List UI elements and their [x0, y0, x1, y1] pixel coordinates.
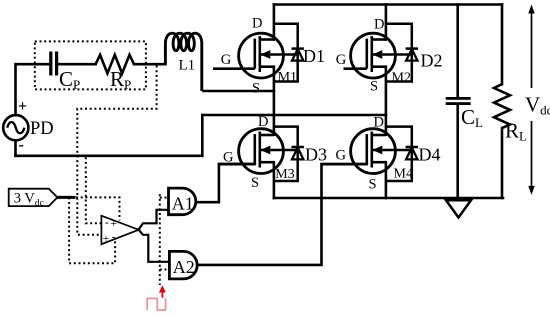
wire: bottom bus (ground rail)	[274, 197, 503, 200]
wire: top bus (Vdc+)	[274, 3, 502, 6]
resistor Rp	[96, 55, 134, 74]
wire: Rp to L1	[134, 63, 165, 66]
diode D2 (body diode)	[386, 24, 418, 82]
dotted wire: pulse line to A1 and A2 inputs	[159, 194, 161, 285]
pulse source arrow (red)	[159, 285, 166, 297]
svg-text:D3: D3	[305, 145, 327, 165]
dotted box around Cp and Rp	[35, 41, 146, 89]
svg-text:G: G	[223, 150, 234, 166]
svg-text:L1: L1	[179, 58, 196, 74]
wire: M1 source down to mid bus	[273, 67, 276, 115]
wire: op-amp output to A1 input	[139, 210, 169, 230]
wire: Cp to Rp	[58, 63, 95, 66]
wire: M2 source down to mid bus	[385, 67, 388, 115]
svg-text:D2: D2	[421, 51, 443, 71]
wire: M4 source to bottom bus	[385, 162, 388, 198]
wire: return line to PD negative	[16, 155, 203, 158]
wire: PD positive up to tank	[16, 64, 50, 115]
wire: mid bus (bridge node A)	[202, 114, 386, 117]
svg-text:D1: D1	[303, 46, 325, 66]
resistor RL	[494, 84, 510, 128]
ground	[446, 200, 471, 217]
wire: 3Vdc tag feed	[57, 196, 74, 199]
svg-text:PD: PD	[30, 119, 54, 139]
svg-text:G: G	[221, 52, 232, 68]
svg-text:D: D	[252, 16, 262, 32]
node tag 3 Vdc	[9, 189, 58, 206]
pulse waveform (red)	[147, 298, 165, 310]
Vdc measurement arrow up	[528, 5, 534, 89]
svg-text:M2: M2	[392, 71, 411, 86]
wire: M3 source to bottom bus	[273, 162, 276, 198]
inductor L1	[165, 33, 201, 91]
wire: CL branch lower	[456, 105, 459, 198]
wire: mid bus left drop to return line	[201, 115, 204, 156]
transistor M2	[344, 33, 412, 78]
capacitor Cp	[49, 52, 58, 76]
wire: A2 output to M4 gate	[195, 164, 367, 265]
AND gate A2	[169, 251, 197, 279]
wire: RL branch upper	[501, 5, 504, 85]
transistor M4	[322, 129, 412, 174]
Vdc measurement arrow down	[528, 121, 534, 195]
svg-text:M4: M4	[394, 167, 413, 182]
svg-text:D: D	[374, 17, 384, 33]
svg-text:A1: A1	[172, 193, 194, 213]
wire: M3 drain from mid bus	[273, 115, 276, 135]
wire: A1 output to M3 gate	[197, 164, 255, 202]
diode D1 (body diode)	[274, 24, 304, 82]
dotted wire: tank tap to op-amp + input	[77, 66, 156, 235]
svg-text:+: +	[110, 216, 117, 230]
svg-text:S: S	[369, 177, 377, 193]
diode D3 (body diode)	[274, 127, 304, 181]
svg-text:S: S	[370, 79, 378, 95]
op-amp U1 (comparator)	[101, 216, 138, 245]
wire: RL branch lower	[501, 128, 504, 198]
dotted wire: 3Vdc to op-amp top edge	[76, 197, 120, 220]
svg-text:S: S	[251, 175, 259, 191]
capacitor CL	[446, 97, 471, 105]
wire: M4 drain from mid bus	[385, 115, 388, 135]
dotted wire: 3Vdc to op-amp bottom edge	[69, 197, 115, 263]
svg-text:+: +	[18, 98, 27, 115]
wire: L1 output to M1 source node	[203, 90, 274, 93]
source PD (photodiode AC source)	[3, 115, 28, 140]
svg-text:D4: D4	[419, 145, 441, 165]
transistor M1	[213, 33, 298, 78]
svg-text:-: -	[19, 137, 24, 154]
wire: M1 drain to top bus	[273, 5, 276, 40]
svg-text:S: S	[252, 81, 260, 97]
svg-text:G: G	[336, 148, 347, 164]
svg-text:+: +	[103, 231, 110, 245]
wire: CL branch upper	[456, 5, 459, 98]
transistor M3	[219, 129, 298, 174]
wire: M2 drain to top bus	[385, 5, 388, 40]
svg-text:G: G	[336, 52, 347, 68]
svg-text:D: D	[374, 115, 384, 131]
svg-text:A2: A2	[173, 257, 195, 277]
diode D4 (body diode)	[386, 127, 418, 181]
svg-text:D: D	[258, 114, 268, 130]
wire: PD negative down to return line	[14, 140, 17, 155]
AND gate A1	[169, 188, 196, 215]
wire: op-amp output to A2 input	[139, 230, 170, 262]
dotted wire: return line tap to op-amp - input	[86, 157, 102, 223]
svg-text:-: -	[105, 215, 109, 229]
